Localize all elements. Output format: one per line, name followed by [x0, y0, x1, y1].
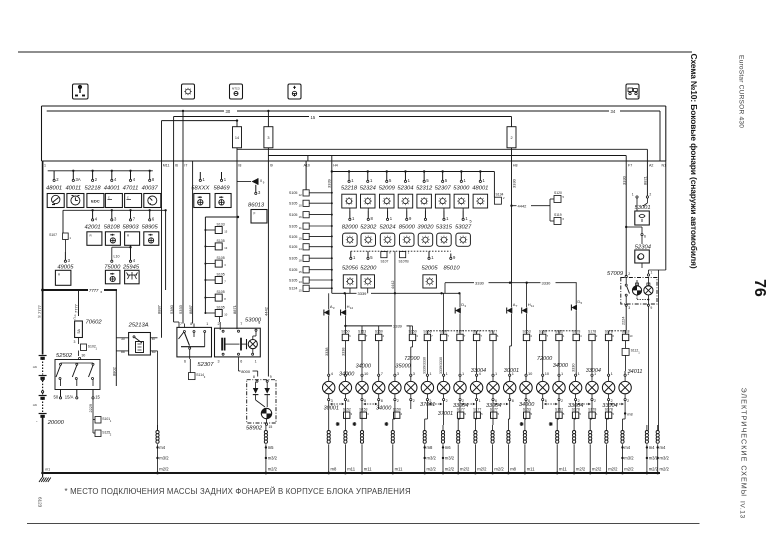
svg-text:25213A: 25213A	[128, 323, 149, 329]
icon tachograph	[230, 84, 243, 99]
label m8 on lamp19 wire	[624, 412, 626, 414]
svg-text:m3/2: m3/2	[159, 456, 169, 461]
svg-text:2: 2	[218, 322, 220, 326]
svg-text:3339: 3339	[327, 178, 332, 188]
ground wire m x265	[265, 425, 267, 431]
unit 42001	[87, 232, 102, 246]
svg-text:2: 2	[594, 399, 596, 403]
connector S107 row3	[381, 252, 387, 258]
svg-text:S105: S105	[217, 290, 225, 294]
lamp unit 52307	[441, 170, 443, 172]
svg-text:1: 1	[206, 322, 208, 326]
svg-text:9: 9	[650, 306, 652, 310]
svg-text:m8: m8	[427, 445, 433, 450]
svg-text:EuroStar CURSOR 430: EuroStar CURSOR 430	[738, 55, 745, 128]
lamp unit 52312	[423, 170, 425, 172]
svg-text:S153: S153	[523, 330, 531, 334]
svg-text:S119: S119	[554, 213, 562, 217]
connector S152 3	[344, 412, 350, 418]
lamp 34000 series x509	[509, 374, 511, 376]
svg-text:* МЕСТО ПОДКЛЮЧЕНИЯ МАССЫ ЗАДН: * МЕСТО ПОДКЛЮЧЕНИЯ МАССЫ ЗАДНИХ ФОНАРЕЙ…	[65, 487, 411, 496]
wire 3339 horizontal	[332, 292, 357, 294]
svg-text:3: 3	[413, 371, 415, 376]
svg-text:1: 1	[594, 371, 596, 376]
connector S177 5	[491, 412, 497, 418]
svg-text:8000: 8000	[241, 369, 251, 374]
wire N1 rightmost down	[658, 270, 660, 431]
wire H4 3339 vertical	[331, 161, 333, 293]
svg-text:9: 9	[258, 321, 260, 325]
connector S118 10	[622, 334, 628, 340]
svg-text:S107: S107	[49, 233, 57, 237]
svg-text:MTCO: MTCO	[232, 87, 240, 91]
connector column bracket	[204, 217, 206, 313]
unit 52005	[423, 275, 437, 288]
frame top edge	[42, 105, 666, 107]
lamp row1 bus	[332, 171, 495, 173]
row2 pin bus	[63, 209, 166, 211]
svg-text:2: 2	[561, 399, 563, 403]
fuse 14 on wire I8	[236, 121, 238, 127]
connector S150 7	[540, 334, 546, 340]
svg-text:3339: 3339	[358, 291, 368, 296]
pin 5	[367, 251, 369, 257]
svg-text:1: 1	[495, 371, 497, 376]
wire to ground m4	[157, 351, 159, 431]
asterisk marks	[336, 423, 340, 425]
svg-text:2: 2	[628, 272, 630, 276]
svg-text:S105: S105	[289, 257, 298, 261]
pin 2	[53, 171, 55, 180]
diode D5	[575, 283, 577, 305]
lamp 34000 series x592	[591, 374, 593, 376]
svg-text:37001: 37001	[438, 411, 453, 417]
svg-text:9: 9	[270, 375, 272, 379]
svg-text:I6: I6	[175, 164, 178, 168]
svg-text:3339/3330: 3339/3330	[423, 357, 427, 374]
svg-text:4442: 4442	[263, 306, 268, 316]
wire 9 down right	[647, 306, 649, 430]
svg-text:11: 11	[299, 226, 302, 230]
unit 58905	[144, 232, 159, 246]
connector S112 1	[622, 348, 629, 355]
wire A10 down to S105 column	[305, 161, 307, 190]
svg-text:S177: S177	[490, 407, 498, 411]
svg-text:76: 76	[751, 279, 768, 297]
svg-text:35000: 35000	[395, 364, 411, 370]
pin 1	[428, 251, 430, 257]
wire 4442 I9 down	[267, 161, 269, 377]
wire I8 down 8871	[236, 161, 238, 329]
ground wire m x492	[492, 425, 494, 431]
unit 75000	[105, 270, 120, 284]
svg-text:8887: 8887	[157, 304, 162, 314]
lamp unit 53027	[462, 208, 464, 211]
connector S152 1	[556, 334, 562, 340]
svg-text:11: 11	[531, 304, 534, 308]
connector S107B	[400, 252, 406, 258]
svg-text:40011: 40011	[65, 185, 81, 191]
svg-text:1: 1	[611, 371, 613, 376]
wire M11	[161, 121, 163, 161]
svg-text:13: 13	[299, 280, 303, 284]
branch to 52304	[626, 226, 642, 228]
svg-text:2: 2	[462, 399, 464, 403]
svg-text:1: 1	[255, 360, 257, 364]
svg-text:8: 8	[364, 399, 366, 403]
svg-text:82000: 82000	[342, 225, 359, 231]
svg-text:1: 1	[446, 371, 448, 376]
switch pins 50 15/A 15	[60, 390, 62, 397]
svg-text:5380: 5380	[169, 304, 174, 314]
svg-text:72000: 72000	[404, 356, 420, 362]
connector S120 5	[550, 198, 554, 200]
svg-text:m2/2: m2/2	[576, 467, 586, 472]
svg-text:8: 8	[347, 399, 349, 403]
svg-text:14: 14	[299, 247, 303, 251]
svg-text:m6: m6	[33, 365, 37, 369]
svg-text:S105: S105	[217, 305, 225, 309]
svg-text:3339: 3339	[393, 324, 403, 329]
svg-text:S177: S177	[473, 407, 481, 411]
bus line M11	[162, 120, 238, 122]
svg-text:m3/2: m3/2	[445, 456, 455, 461]
ground wire m x646	[646, 425, 648, 431]
svg-text:6: 6	[184, 360, 186, 364]
svg-text:5: 5	[470, 220, 472, 224]
svg-text:52218: 52218	[85, 185, 102, 191]
connector S134 2	[494, 197, 501, 204]
unit 25945 beacon	[125, 270, 140, 284]
svg-text:12: 12	[350, 306, 354, 310]
svg-text:m2/2: m2/2	[592, 467, 602, 472]
svg-text:3: 3	[397, 371, 399, 376]
wire 8802	[115, 290, 117, 386]
svg-text:40037: 40037	[142, 185, 159, 191]
svg-text:3: 3	[628, 306, 630, 310]
svg-text:S178: S178	[572, 330, 580, 334]
unit 58XXX	[194, 194, 210, 208]
svg-text:2229: 2229	[89, 404, 93, 412]
svg-text:m2/2: m2/2	[624, 467, 634, 472]
bus line to A2	[237, 148, 647, 150]
svg-text:7: 7	[381, 371, 383, 376]
svg-text:S105: S105	[289, 245, 298, 249]
connector S119 6	[550, 220, 554, 222]
svg-text:3330: 3330	[572, 364, 576, 372]
lamp unit 52304	[404, 170, 406, 172]
svg-text:S153: S153	[359, 407, 367, 411]
svg-text:m8: m8	[627, 412, 632, 416]
wire I7	[182, 111, 184, 161]
feeder risers to connector row	[361, 326, 363, 334]
connector S150 3	[409, 334, 415, 340]
svg-text:8887: 8887	[188, 304, 193, 314]
svg-text:58108: 58108	[104, 225, 121, 231]
relay wiring	[116, 337, 128, 339]
svg-text:3339/3330: 3339/3330	[439, 357, 443, 374]
svg-text:53315: 53315	[436, 225, 453, 231]
svg-text:m5: m5	[268, 445, 274, 450]
svg-text:48001: 48001	[472, 186, 488, 192]
svg-text:S178: S178	[588, 330, 596, 334]
top rule	[18, 51, 692, 53]
svg-text:S177: S177	[456, 330, 464, 334]
svg-text:3330: 3330	[475, 280, 485, 285]
wire 2224 down to lamp	[625, 306, 627, 330]
svg-text:S107B: S107B	[399, 259, 410, 263]
dashed links under lamps	[331, 403, 344, 405]
bus 30 corner down	[659, 111, 661, 161]
svg-text:6: 6	[545, 399, 547, 403]
connector S177 7	[457, 334, 463, 340]
ground wire m x524	[524, 425, 526, 431]
svg-text:52024: 52024	[379, 225, 395, 231]
lamp 34000 series x542	[542, 374, 544, 376]
lamp unit 52024	[387, 208, 389, 211]
pin 7	[130, 210, 132, 219]
svg-text:15: 15	[311, 115, 316, 120]
svg-text:57009: 57009	[607, 271, 624, 277]
connector S178 1	[589, 412, 595, 418]
svg-text:86013: 86013	[248, 203, 265, 209]
pin 4	[130, 171, 132, 180]
svg-text:72000: 72000	[537, 356, 553, 362]
svg-text:S105: S105	[289, 191, 298, 195]
svg-text:30: 30	[82, 354, 86, 358]
ground wire m x424	[424, 425, 426, 431]
bus line 30	[47, 110, 224, 112]
svg-text:m2/2: m2/2	[427, 467, 437, 472]
unit 53001	[636, 196, 638, 198]
diode H11	[526, 283, 528, 308]
pin 2	[92, 171, 94, 180]
svg-text:58903: 58903	[122, 225, 139, 231]
lamp unit 52218	[348, 170, 350, 172]
unit 47011	[125, 194, 142, 208]
wire H4 stub	[331, 156, 333, 162]
svg-text:8: 8	[381, 399, 383, 403]
svg-text:6123: 6123	[38, 497, 43, 508]
svg-text:52218: 52218	[341, 186, 358, 192]
wire N1 down	[665, 161, 667, 270]
svg-text:1: 1	[479, 399, 481, 403]
lamp 34000 series x345	[344, 374, 346, 376]
svg-text:1: 1	[347, 371, 349, 376]
connector S102 1	[78, 341, 80, 344]
svg-text:15/A: 15/A	[65, 395, 74, 400]
svg-text:5333: 5333	[178, 304, 183, 314]
bus for 58XXX 58469	[200, 170, 221, 172]
svg-text:S105: S105	[289, 235, 298, 239]
unit 58108	[105, 232, 120, 246]
svg-text:m2/2: m2/2	[494, 467, 504, 472]
svg-text:m3/2: m3/2	[427, 456, 437, 461]
svg-text:7777: 7777	[73, 303, 78, 313]
svg-text:IV.13: IV.13	[739, 501, 746, 519]
svg-text:m11: m11	[559, 467, 568, 472]
svg-text:2: 2	[413, 399, 415, 403]
wire A2 down 8821	[646, 161, 648, 196]
svg-text:Схема №10: Боковые фонари (сна: Схема №10: Боковые фонари (снаружи автом…	[689, 54, 699, 269]
lamp 34000 series x362	[361, 374, 363, 376]
svg-text:52312: 52312	[416, 186, 433, 192]
svg-text:52005: 52005	[421, 265, 438, 271]
lamp row3 dotted bus	[351, 250, 429, 252]
pins 3 and 9 of 57009	[625, 304, 627, 306]
icon trailer	[626, 84, 639, 99]
svg-text:3: 3	[218, 360, 220, 364]
svg-text:58469: 58469	[213, 185, 230, 191]
junction dots on buses	[182, 110, 184, 112]
svg-text:m1: m1	[45, 468, 50, 472]
wire from S105 column to 53000 pin 2	[219, 317, 221, 323]
svg-text:S150: S150	[341, 330, 349, 334]
svg-text:52502: 52502	[56, 353, 73, 359]
svg-text:30: 30	[226, 109, 231, 114]
frame right edge wire N1	[665, 106, 667, 161]
svg-text:5A: 5A	[77, 329, 81, 334]
svg-text:H8: H8	[513, 164, 518, 168]
svg-text:34000: 34000	[356, 364, 372, 370]
unit 49005	[55, 270, 71, 285]
svg-text:48001: 48001	[46, 185, 62, 191]
pin 1	[350, 251, 352, 257]
svg-text:3330: 3330	[542, 280, 552, 285]
svg-text:52307: 52307	[197, 362, 214, 368]
svg-text:1: 1	[429, 371, 431, 376]
connector S177 5	[457, 412, 463, 418]
svg-text:85000: 85000	[399, 225, 416, 231]
pin 8	[149, 171, 151, 180]
ground wire m x574	[573, 425, 575, 431]
connector S177 7	[473, 334, 479, 340]
lamp unit 53000	[460, 170, 462, 172]
diode unit 58902	[247, 380, 276, 423]
connector S153 7	[359, 334, 365, 340]
lamp 34000 series x493	[492, 374, 494, 376]
svg-text:A2: A2	[649, 164, 653, 168]
svg-text:7777: 7777	[89, 288, 99, 293]
ground wire m x590	[589, 425, 591, 431]
svg-text:34000: 34000	[553, 363, 569, 369]
lamp unit 48001	[479, 170, 481, 172]
svg-text:m6: m6	[33, 403, 37, 407]
svg-text:2: 2	[627, 399, 629, 403]
unit 44001	[105, 194, 122, 208]
svg-text:14: 14	[235, 136, 239, 140]
svg-text:34: 34	[611, 109, 616, 114]
svg-text:2: 2	[578, 399, 580, 403]
svg-text:1: 1	[651, 270, 653, 274]
svg-text:1: 1	[44, 164, 46, 168]
pin 4	[130, 247, 132, 260]
fuse 3 on wire I9	[267, 111, 269, 127]
svg-text:10: 10	[224, 313, 227, 317]
svg-text:S150: S150	[393, 407, 401, 411]
svg-text:34000: 34000	[376, 406, 392, 412]
svg-text:S107: S107	[381, 259, 389, 263]
svg-text:2: 2	[611, 399, 613, 403]
diode H12	[344, 293, 346, 309]
svg-text:m8: m8	[331, 467, 337, 472]
svg-text:15: 15	[269, 425, 273, 429]
unit 48001 cluster	[47, 194, 64, 208]
svg-text:m4: m4	[660, 445, 666, 450]
svg-text:S105: S105	[289, 278, 298, 282]
svg-text:3338: 3338	[325, 348, 329, 356]
pin 4	[111, 171, 113, 180]
svg-text:50: 50	[54, 395, 59, 400]
lamp 34000 series x378	[378, 374, 380, 376]
ground wire m x157	[157, 425, 159, 431]
lamp 34000 series x608	[608, 374, 610, 376]
svg-text:M11: M11	[163, 164, 170, 168]
svg-text:1: 1	[462, 371, 464, 376]
svg-text:52304: 52304	[635, 244, 651, 250]
svg-text:1: 1	[561, 371, 563, 376]
ground wire m x392	[392, 425, 394, 431]
wires 8887 5380 5333 8887 down	[161, 161, 163, 338]
svg-text:m8: m8	[510, 467, 516, 472]
svg-text:37001: 37001	[420, 402, 435, 408]
wire 2229	[92, 399, 94, 414]
svg-text:3: 3	[331, 399, 333, 403]
icon key switch	[73, 84, 89, 99]
wire to right lamp 34011	[624, 371, 626, 374]
svg-text:m4: m4	[159, 445, 165, 450]
svg-text:20000: 20000	[47, 420, 65, 426]
pin 1 of 58469	[221, 172, 223, 179]
svg-text:13: 13	[224, 246, 227, 250]
svg-text:m4: m4	[649, 445, 655, 450]
lamp 34000 series x394	[394, 374, 396, 376]
connector S106 7	[424, 334, 430, 340]
svg-text:S177: S177	[457, 407, 465, 411]
connector S150 4	[394, 412, 400, 418]
wire 3339 second	[345, 325, 392, 327]
bottom rule	[27, 523, 700, 525]
svg-text:18: 18	[299, 258, 303, 262]
lamp 34000 series x328	[328, 374, 330, 376]
svg-text:8802: 8802	[111, 366, 116, 376]
diode D3	[459, 293, 461, 307]
svg-text:S105: S105	[217, 256, 225, 260]
svg-text:58905: 58905	[142, 225, 159, 231]
svg-text:m11: m11	[347, 467, 356, 472]
ground wire m x362	[361, 425, 363, 431]
dashed group brackets	[427, 330, 493, 332]
svg-text:53027: 53027	[455, 225, 472, 231]
svg-text:3330: 3330	[511, 178, 516, 188]
wire 8000 to 58902	[238, 357, 240, 371]
bus line to F7	[268, 155, 626, 157]
lamp 34000 series x443	[443, 374, 445, 376]
lamp bottom connections to ground wires	[328, 409, 330, 425]
svg-text:12: 12	[299, 193, 303, 197]
svg-text:2: 2	[510, 136, 512, 140]
svg-text:S152: S152	[343, 407, 351, 411]
svg-text:H4: H4	[333, 164, 338, 168]
svg-text:m4: m4	[624, 445, 630, 450]
svg-text:4442: 4442	[518, 204, 528, 209]
svg-text:2224: 2224	[621, 317, 625, 325]
svg-text:m3/2: m3/2	[268, 456, 278, 461]
svg-text:S153: S153	[523, 407, 531, 411]
svg-text:F7: F7	[628, 164, 632, 168]
battery 20000	[42, 290, 44, 355]
svg-text:S105: S105	[217, 272, 225, 276]
